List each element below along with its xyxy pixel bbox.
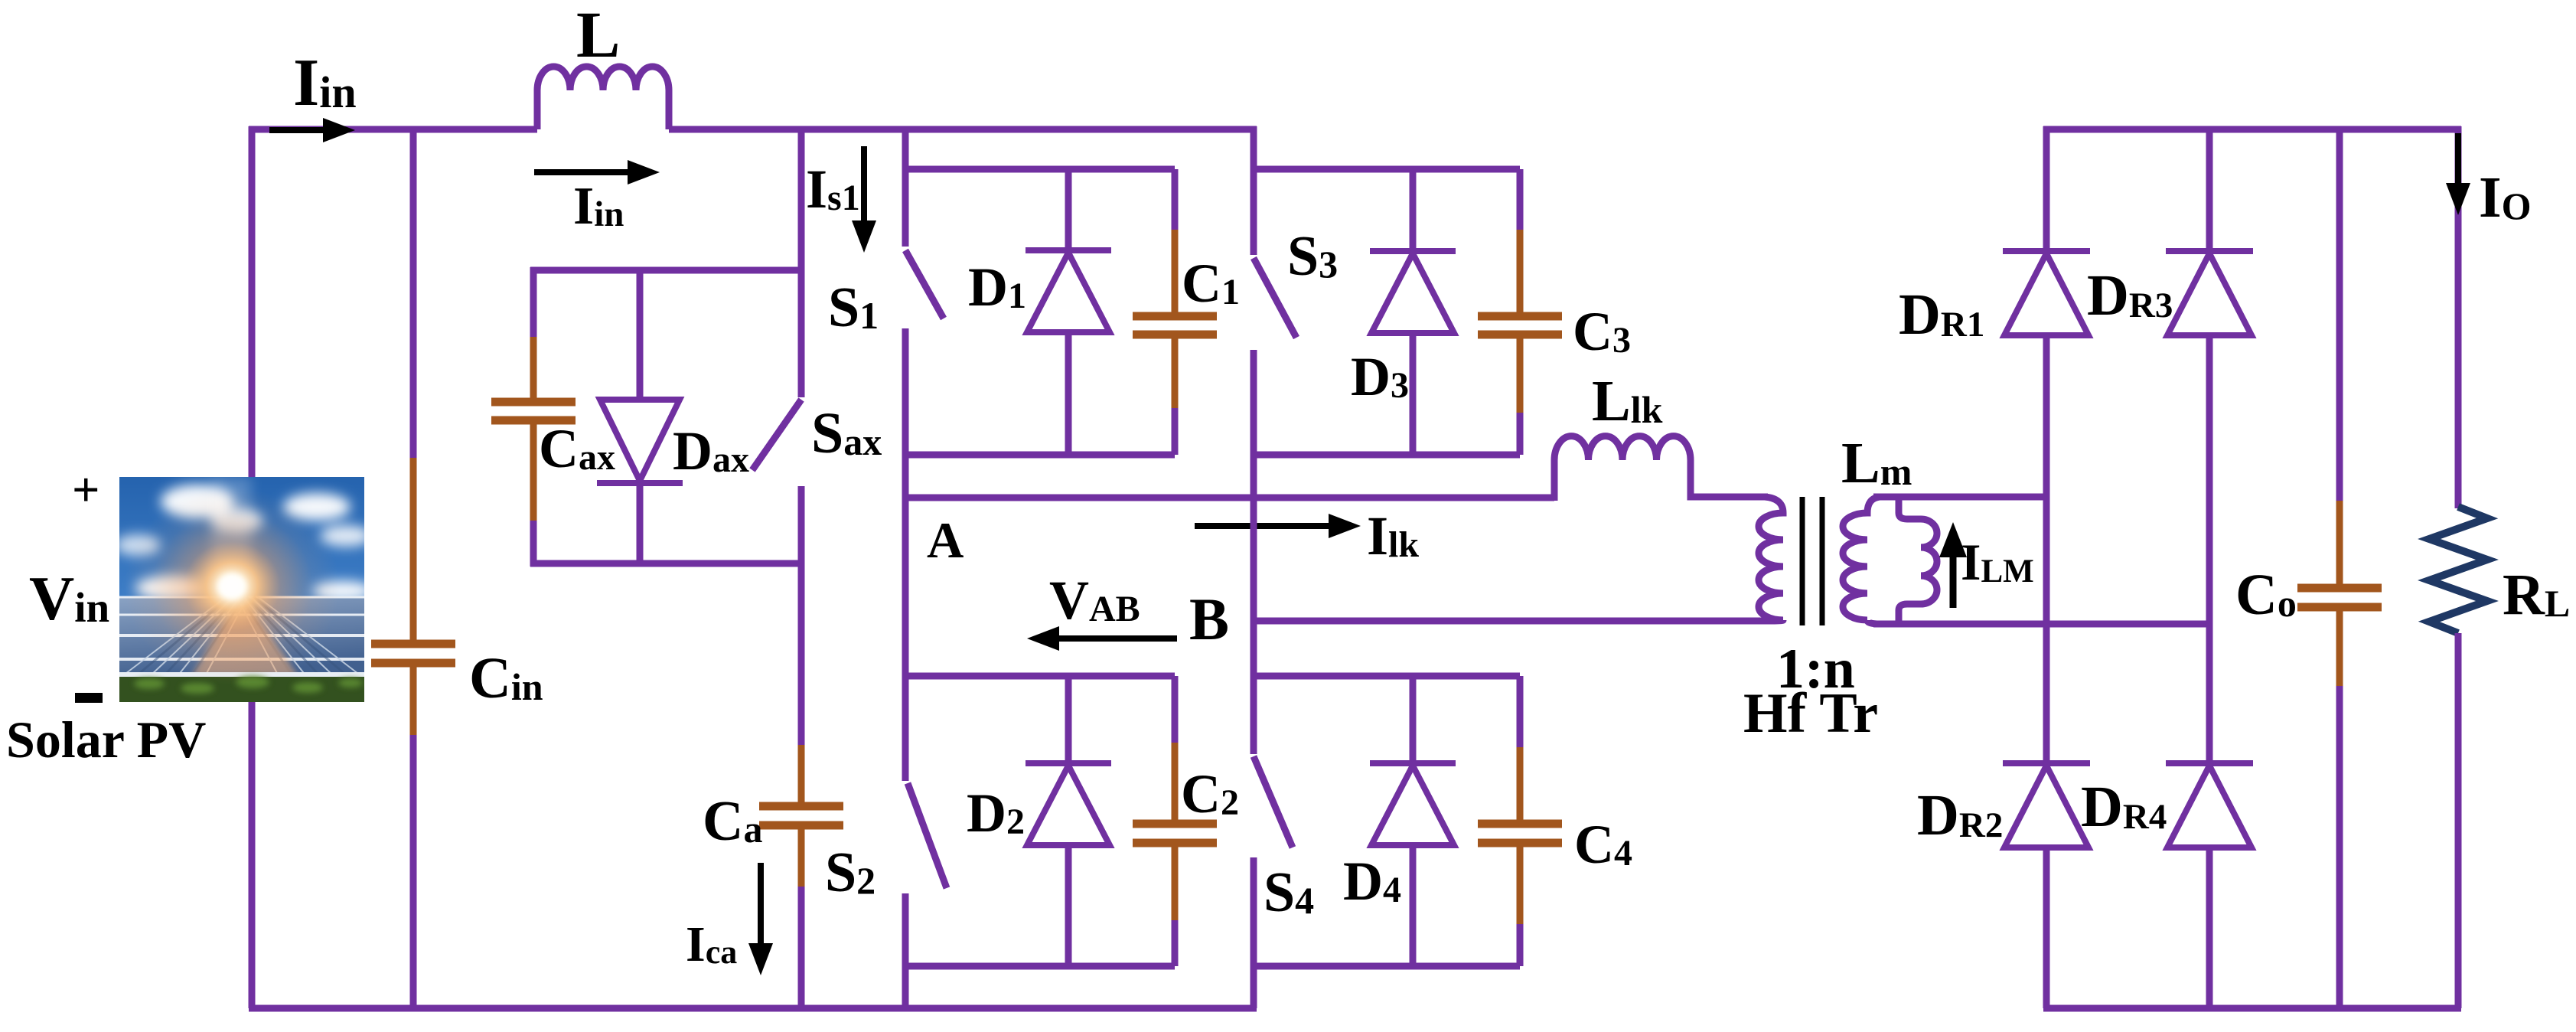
- wire bottom rail left section: [249, 1005, 1257, 1012]
- wire node B rail: [1254, 618, 1774, 625]
- transformer secondary winding: [1843, 497, 1880, 624]
- label RL: [2503, 563, 2570, 627]
- svg-text:DR4: DR4: [2081, 775, 2167, 839]
- label S4: [1264, 861, 1314, 924]
- wire D4 leads: [1410, 676, 1417, 966]
- capacitor Cax plates: [491, 402, 576, 420]
- arrow Iin input: [269, 118, 355, 142]
- svg-text:L: L: [576, 0, 620, 71]
- label Ica: [686, 916, 737, 972]
- wire top rail from input to inductor: [249, 126, 537, 133]
- wire S1 cell bottom rail: [905, 452, 1175, 459]
- wire Dax lower lead: [637, 485, 644, 567]
- diode D2: [1026, 763, 1111, 845]
- svg-text:ILM: ILM: [1961, 533, 2034, 591]
- svg-text:VAB: VAB: [1049, 570, 1140, 631]
- diode D4: [1370, 763, 1456, 845]
- label turns ratio 1:n: [1776, 638, 1855, 701]
- label D2: [967, 782, 1025, 844]
- svg-text:S2: S2: [825, 841, 876, 904]
- svg-text:Solar PV: Solar PV: [6, 710, 206, 769]
- svg-text:C4: C4: [1574, 814, 1632, 875]
- label ILM: [1961, 533, 2034, 591]
- capacitor Co lower brown lead: [2336, 611, 2343, 687]
- wire Cax lower lead: [530, 521, 537, 567]
- label node B: [1189, 586, 1229, 652]
- capacitor C3 plates: [1478, 316, 1562, 335]
- label C2: [1181, 763, 1239, 825]
- label node A: [927, 512, 964, 569]
- wire S2 cell bottom rail: [905, 963, 1175, 970]
- wire top rail right section: [2043, 126, 2461, 133]
- label Dax: [673, 420, 749, 482]
- label C1: [1182, 253, 1240, 314]
- wire left input vertical lower: [249, 698, 256, 1008]
- label Cin: [469, 646, 543, 710]
- wire S4 cell top rail: [1254, 673, 1520, 680]
- inductor L: [537, 67, 669, 129]
- svg-text:D1: D1: [968, 256, 1026, 318]
- arrow Io: [2446, 133, 2470, 215]
- wire Dax upper lead: [637, 267, 644, 401]
- label C4: [1574, 814, 1632, 875]
- label Io: [2479, 165, 2531, 230]
- wire S1 cell top rail: [905, 166, 1175, 173]
- wire Sax box top rail: [530, 267, 801, 274]
- label D1: [968, 256, 1026, 318]
- capacitor Ca lower brown lead: [798, 829, 805, 888]
- label Co: [2235, 563, 2297, 627]
- svg-text:Dax: Dax: [673, 420, 749, 482]
- svg-text:IO: IO: [2479, 165, 2531, 230]
- label DR1: [1899, 282, 1984, 347]
- svg-text:Co: Co: [2235, 563, 2297, 627]
- capacitor C3 lower brown lead: [1517, 338, 1524, 414]
- arrow Ica: [748, 863, 773, 975]
- svg-text:D3: D3: [1351, 346, 1409, 407]
- capacitor C4 upper brown lead: [1517, 747, 1524, 820]
- label D3: [1351, 346, 1409, 407]
- capacitor C2 lower brown lead: [1172, 847, 1179, 922]
- diode D1: [1026, 250, 1111, 332]
- wire rectifier leg1: [2043, 126, 2050, 1008]
- svg-text:Ca: Ca: [703, 790, 762, 853]
- capacitor Cax upper brown lead: [530, 337, 537, 398]
- label Ilk: [1367, 505, 1419, 567]
- transformer primary winding: [1759, 497, 1783, 621]
- wire leg1 top segment: [902, 126, 909, 247]
- svg-text:DR3: DR3: [2087, 263, 2173, 328]
- wire C4 lower lead: [1517, 924, 1524, 966]
- wire leg1 bottom segment: [902, 893, 909, 1008]
- label S3: [1287, 225, 1338, 288]
- wire rectifier leg2: [2206, 126, 2213, 1008]
- capacitor Cin upper brown lead: [410, 458, 417, 640]
- wire S3 cell bottom rail: [1254, 452, 1520, 459]
- wire S3 cell top rail: [1254, 166, 1520, 173]
- capacitor C4 lower brown lead: [1517, 847, 1524, 926]
- svg-text:DR2: DR2: [1917, 783, 2003, 847]
- capacitor Ca plates: [759, 806, 843, 825]
- inductor Llk: [1554, 436, 1768, 501]
- svg-text:Lm: Lm: [1841, 431, 1912, 495]
- wire left input vertical upper: [249, 126, 256, 481]
- wire D2 leads: [1065, 676, 1072, 966]
- wire Cin upper lead: [410, 126, 417, 459]
- label Sax: [811, 401, 882, 465]
- capacitor C1 upper brown lead: [1172, 230, 1179, 312]
- wire RL upper lead: [2455, 126, 2462, 508]
- inductor Lm: [1899, 497, 1937, 624]
- wire node A rail: [905, 495, 1554, 501]
- label S2: [825, 841, 876, 904]
- resistor RL: [2429, 507, 2487, 633]
- label VAB: [1049, 570, 1140, 631]
- arrow ILM: [1939, 522, 1967, 608]
- label DR2: [1917, 783, 2003, 847]
- wire C4 upper lead: [1517, 676, 1524, 749]
- switch Sax blade: [752, 400, 801, 470]
- label D4: [1343, 851, 1401, 912]
- capacitor Co plates: [2297, 588, 2382, 607]
- label L: [576, 0, 620, 71]
- label Hf Tr: [1743, 682, 1878, 745]
- arrow Iin under inductor: [534, 160, 660, 185]
- wire Cin lower lead: [410, 735, 417, 1008]
- wire C2 lower lead: [1172, 920, 1179, 966]
- svg-text:A: A: [927, 512, 964, 569]
- svg-text:C1: C1: [1182, 253, 1240, 314]
- wire S2 cell top rail: [905, 673, 1175, 680]
- capacitor Cin plates: [371, 644, 455, 663]
- wire Co lower lead: [2336, 686, 2343, 1008]
- svg-text:S3: S3: [1287, 225, 1338, 288]
- wire C1 upper lead: [1172, 169, 1179, 231]
- wire S4 cell bottom rail: [1254, 963, 1520, 970]
- capacitor Co upper brown lead: [2336, 501, 2343, 584]
- svg-text:Iin: Iin: [293, 46, 357, 120]
- diode DR3: [2166, 251, 2253, 335]
- wire secondary bottom to rectifier: [1873, 621, 2212, 628]
- wire Cax upper lead: [530, 267, 537, 338]
- wire Co upper lead: [2336, 126, 2343, 502]
- label DR3: [2087, 263, 2173, 328]
- wire C1 lower lead: [1172, 408, 1179, 455]
- label Lm: [1841, 431, 1912, 495]
- svg-text:C3: C3: [1573, 301, 1631, 362]
- arrow VAB: [1027, 626, 1177, 651]
- label Is1: [806, 158, 860, 220]
- label Solar PV: [6, 710, 206, 769]
- label Ca: [703, 790, 762, 853]
- capacitor C2 plates: [1133, 824, 1217, 843]
- wire bottom rail right section: [2043, 1005, 2461, 1012]
- wire leg1 middle segment: [902, 328, 909, 781]
- arrow Is1: [852, 146, 876, 253]
- label Iin under inductor: [573, 177, 624, 236]
- wire boost leg middle: [798, 486, 805, 746]
- diode Dax: [597, 400, 683, 483]
- capacitor Cin lower brown lead: [410, 667, 417, 736]
- svg-text:+: +: [72, 462, 99, 517]
- wire top rail from inductor to bridge: [669, 126, 1257, 133]
- capacitor C1 plates: [1133, 316, 1217, 335]
- svg-text:D4: D4: [1343, 851, 1401, 912]
- diode DR4: [2166, 763, 2253, 847]
- switch S3 blade: [1254, 258, 1296, 338]
- capacitor C4 plates: [1478, 824, 1562, 843]
- svg-text:Hf Tr: Hf Tr: [1743, 682, 1878, 745]
- svg-text:Vin: Vin: [29, 563, 109, 633]
- svg-text:C2: C2: [1181, 763, 1239, 825]
- wire leg2 middle segment: [1251, 350, 1257, 754]
- svg-text:S4: S4: [1264, 861, 1314, 924]
- transformer core: [1802, 497, 1822, 625]
- capacitor Ca upper brown lead: [798, 745, 805, 802]
- wire leg2 bottom segment: [1251, 857, 1257, 1008]
- switch S4 blade: [1254, 756, 1293, 847]
- svg-text:RL: RL: [2503, 563, 2570, 627]
- label minus terminal: [75, 693, 103, 703]
- label Cax: [539, 418, 615, 479]
- solar PV photo: [115, 477, 373, 702]
- wire RL lower lead: [2455, 633, 2462, 1008]
- wire D3 leads: [1410, 169, 1417, 455]
- wire boost leg lower: [798, 887, 805, 1008]
- wire boost leg upper: [798, 126, 805, 397]
- wire Sax box bottom rail: [530, 560, 801, 567]
- svg-text:D2: D2: [967, 782, 1025, 844]
- label S1: [828, 276, 879, 339]
- wire C3 lower lead: [1517, 413, 1524, 455]
- svg-text:Cax: Cax: [539, 418, 615, 479]
- label plus terminal: [72, 462, 99, 517]
- label C3: [1573, 301, 1631, 362]
- wire leg2 top segment: [1251, 126, 1257, 255]
- wire D1 leads: [1065, 169, 1072, 455]
- diode DR2: [2003, 763, 2090, 847]
- wire C3 upper lead: [1517, 169, 1524, 231]
- svg-text:Ilk: Ilk: [1367, 505, 1419, 567]
- capacitor C3 upper brown lead: [1517, 230, 1524, 312]
- arrow Ilk: [1195, 514, 1361, 538]
- label DR4: [2081, 775, 2167, 839]
- wire secondary top to rectifier: [1873, 494, 2049, 501]
- label Iin input: [293, 46, 357, 120]
- diode DR1: [2003, 251, 2090, 335]
- switch S2 blade: [908, 783, 947, 888]
- capacitor Cax lower brown lead: [530, 424, 537, 522]
- wire C2 upper lead: [1172, 676, 1179, 744]
- svg-text:DR1: DR1: [1899, 282, 1984, 347]
- capacitor C2 upper brown lead: [1172, 743, 1179, 820]
- svg-text:Llk: Llk: [1592, 369, 1663, 433]
- label Llk: [1592, 369, 1663, 433]
- switch S1 blade: [905, 250, 944, 318]
- svg-text:Ica: Ica: [686, 916, 737, 972]
- capacitor C1 lower brown lead: [1172, 338, 1179, 410]
- svg-text:Sax: Sax: [811, 401, 882, 465]
- svg-text:S1: S1: [828, 276, 879, 339]
- svg-text:B: B: [1189, 586, 1229, 652]
- svg-text:Iin: Iin: [573, 177, 624, 236]
- svg-text:Is1: Is1: [806, 158, 860, 220]
- svg-text:Cin: Cin: [469, 646, 543, 710]
- label Vin: [29, 563, 109, 633]
- diode D3: [1370, 251, 1456, 333]
